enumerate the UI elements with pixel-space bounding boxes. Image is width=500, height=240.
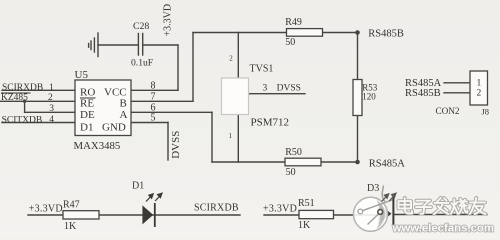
svg-text:1: 1: [477, 78, 482, 88]
svg-text:50: 50: [286, 167, 296, 178]
svg-text:50: 50: [285, 37, 295, 48]
svg-text:TVS1: TVS1: [250, 64, 274, 75]
svg-text:0.1uF: 0.1uF: [131, 58, 153, 69]
svg-text:1: 1: [229, 132, 233, 140]
svg-text:D1: D1: [80, 122, 93, 134]
svg-text:B: B: [120, 98, 127, 110]
svg-text:+3.3VD: +3.3VD: [162, 4, 173, 37]
svg-text:www.elecfans.com: www.elecfans.com: [392, 223, 495, 235]
svg-text:R47: R47: [63, 200, 80, 211]
svg-text:VCC: VCC: [104, 86, 127, 98]
svg-text:RO: RO: [80, 86, 95, 98]
svg-text:2: 2: [48, 93, 53, 103]
svg-text:120: 120: [362, 92, 376, 102]
svg-text:A: A: [120, 109, 128, 121]
svg-text:DVSS: DVSS: [277, 83, 301, 93]
svg-text:RS485B: RS485B: [368, 28, 404, 39]
svg-text:DE: DE: [80, 109, 95, 121]
svg-text:KZ485: KZ485: [1, 93, 28, 103]
svg-text:DVSS: DVSS: [170, 131, 182, 159]
svg-text:8: 8: [151, 80, 156, 91]
svg-text:+3.3VD: +3.3VD: [29, 203, 63, 214]
svg-text:4: 4: [49, 115, 54, 125]
svg-text:MAX3485: MAX3485: [74, 140, 121, 152]
svg-text:2: 2: [229, 55, 233, 63]
svg-text:D1: D1: [132, 181, 144, 192]
svg-text:U5: U5: [75, 69, 89, 81]
svg-text:R49: R49: [285, 17, 302, 28]
svg-text:2: 2: [477, 89, 482, 99]
svg-text:PSM712: PSM712: [251, 117, 290, 129]
svg-text:SCITXDB: SCITXDB: [2, 115, 43, 125]
svg-text:RS485A: RS485A: [369, 158, 406, 169]
svg-text:1: 1: [49, 83, 54, 93]
svg-text:RS485B: RS485B: [405, 88, 441, 99]
svg-text:J8: J8: [482, 107, 490, 117]
svg-text:SCIRXDB: SCIRXDB: [2, 83, 43, 93]
svg-text:1K: 1K: [64, 221, 77, 232]
svg-text:CON2: CON2: [436, 106, 460, 116]
svg-text:1K: 1K: [298, 220, 311, 231]
svg-text:RE: RE: [80, 98, 94, 110]
svg-text:R50: R50: [285, 147, 302, 158]
svg-text:C28: C28: [133, 21, 149, 32]
svg-text:5: 5: [151, 113, 156, 124]
svg-text:3: 3: [49, 104, 54, 114]
svg-text:R51: R51: [298, 198, 315, 209]
svg-text:D3: D3: [367, 183, 379, 194]
svg-text:+3.3VD: +3.3VD: [263, 203, 297, 214]
svg-text:7: 7: [151, 91, 156, 102]
svg-text:GND: GND: [102, 122, 126, 134]
svg-text:3: 3: [263, 83, 268, 93]
svg-text:SCIRXDB: SCIRXDB: [194, 202, 239, 213]
